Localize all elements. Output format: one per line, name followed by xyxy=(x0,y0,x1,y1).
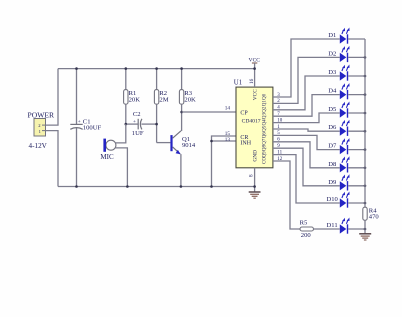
wire pin8 to ground xyxy=(254,168,256,192)
junction C2 left (R1/mic) xyxy=(125,123,128,126)
junction bus D6 xyxy=(364,130,367,133)
junction C1 bottom xyxy=(75,185,78,188)
transistor Q1 9014 xyxy=(170,131,181,154)
LED D6 xyxy=(340,120,350,136)
wire top rail xyxy=(58,68,255,70)
capacitor C1 xyxy=(70,69,82,187)
wire Q6 pin5 to D7 xyxy=(273,135,340,149)
wire LED bus vertical xyxy=(364,39,366,207)
svg-text:U1: U1 xyxy=(234,80,242,87)
junction VCC rail xyxy=(253,67,256,70)
junction R1 top xyxy=(125,67,128,70)
junction INH rail xyxy=(210,185,213,188)
junction bus D7 xyxy=(364,148,367,151)
svg-text:14: 14 xyxy=(225,106,231,112)
wire CP pin14 xyxy=(182,111,236,113)
svg-text:Q0: Q0 xyxy=(262,93,267,100)
resistor R1 xyxy=(124,69,128,124)
junction bus D4 xyxy=(364,93,367,96)
wire INH pin13 xyxy=(212,140,237,142)
svg-text:Q4: Q4 xyxy=(262,119,267,126)
wire Q1 collector up to CP node xyxy=(181,112,183,131)
wire D6 cathode to bus xyxy=(348,130,365,132)
junction bus D11 xyxy=(364,228,367,231)
svg-text:D8: D8 xyxy=(328,161,337,168)
svg-text:D10: D10 xyxy=(327,196,339,203)
junction mic bottom rail xyxy=(126,185,129,188)
wire Q5 pin1 to D6 xyxy=(273,129,340,131)
wire D8 cathode to bus xyxy=(348,167,365,169)
svg-text:CD4017: CD4017 xyxy=(242,119,261,125)
wire D5 cathode to bus xyxy=(348,112,365,114)
LED D7 xyxy=(340,138,350,154)
junction C2 right (R2/base) xyxy=(155,123,158,126)
connector J1 POWER xyxy=(34,119,46,137)
svg-text:MIC: MIC xyxy=(100,153,114,161)
LED D8 xyxy=(340,156,350,172)
svg-text:2M: 2M xyxy=(159,97,168,104)
svg-text:D4: D4 xyxy=(328,88,337,95)
wire CO pin12 to R5 xyxy=(273,161,300,229)
LED D2 xyxy=(340,46,350,62)
wire Q8 pin9 to D9 xyxy=(273,148,340,186)
op IC U1 CD4017 body xyxy=(236,87,273,168)
junction C1 top xyxy=(75,67,78,70)
svg-text:Q5: Q5 xyxy=(262,125,267,132)
LED D10 xyxy=(340,192,350,208)
resistor R2 xyxy=(154,69,158,143)
LED D4 xyxy=(340,83,350,99)
wire D9 cathode to bus xyxy=(348,185,365,187)
wire Q1 emitter to bottom rail xyxy=(180,154,182,186)
wire power pin1 to bottom rail xyxy=(46,131,59,187)
svg-text:+: + xyxy=(78,119,81,125)
svg-text:GND: GND xyxy=(252,150,258,162)
svg-text:CO: CO xyxy=(262,157,267,164)
svg-text:INH: INH xyxy=(240,140,251,146)
wire Q7 pin6 to D8 xyxy=(273,142,340,168)
wire Q0 pin3 to D1 xyxy=(273,39,340,97)
junction CR/INH tie xyxy=(210,140,213,143)
svg-text:100UF: 100UF xyxy=(83,124,102,131)
junction bus D9 xyxy=(364,185,367,188)
wire Q1 pin2 to D2 xyxy=(273,57,340,103)
wire R5 to D11 xyxy=(314,228,340,230)
svg-text:9014: 9014 xyxy=(182,142,196,149)
resistor R5 xyxy=(300,227,314,231)
svg-text:Q9: Q9 xyxy=(262,151,267,158)
svg-text:Q2: Q2 xyxy=(262,106,267,113)
svg-text:13: 13 xyxy=(225,137,231,143)
svg-text:D6: D6 xyxy=(328,124,337,131)
power symbol VCC xyxy=(249,57,261,87)
wire CR pin15 xyxy=(212,136,237,187)
junction R3 top xyxy=(180,67,183,70)
svg-text:Q8: Q8 xyxy=(262,144,267,151)
svg-text:D1: D1 xyxy=(328,32,336,39)
svg-text:16: 16 xyxy=(249,78,255,84)
svg-text:Q6: Q6 xyxy=(262,132,267,139)
svg-text:D3: D3 xyxy=(328,69,337,76)
wire R4 to ground xyxy=(364,220,366,233)
junction bus D2 xyxy=(364,56,367,59)
resistor R3 xyxy=(179,69,183,112)
wire Q4 pin10 to D5 xyxy=(273,113,340,123)
svg-text:4-12V: 4-12V xyxy=(29,142,48,150)
wire D10 cathode to bus xyxy=(348,202,365,204)
junction bus D3 xyxy=(364,75,367,78)
wire D7 cathode to bus xyxy=(348,149,365,151)
ground GND at IC xyxy=(249,192,261,198)
wire D2 cathode to bus xyxy=(348,56,365,58)
LED D9 xyxy=(340,174,350,190)
svg-text:Q3: Q3 xyxy=(262,112,267,119)
wire bottom rail xyxy=(58,186,255,188)
wire mic bottom to ground rail xyxy=(116,148,128,187)
resistor R4 xyxy=(363,207,367,220)
svg-text:Q1: Q1 xyxy=(262,100,267,107)
svg-text:D11: D11 xyxy=(327,222,338,229)
svg-text:D5: D5 xyxy=(328,106,337,113)
svg-text:1UF: 1UF xyxy=(132,130,144,137)
ground GND at R4 xyxy=(359,234,371,240)
svg-text:VCC: VCC xyxy=(252,89,258,100)
wire D11 cathode to bus xyxy=(348,228,365,230)
junction bus D10 xyxy=(364,202,367,205)
wire Q9 pin11 to D10 xyxy=(273,155,340,203)
LED D1 xyxy=(340,28,350,44)
wire D1 cathode to bus xyxy=(348,38,365,40)
svg-text:8: 8 xyxy=(248,174,254,177)
LED D11 xyxy=(340,218,350,234)
junction emitter rail xyxy=(180,185,183,188)
svg-text:C2: C2 xyxy=(133,111,141,118)
junction R3/collector/CP xyxy=(180,111,183,114)
wire power pin2 to top rail xyxy=(46,69,59,126)
svg-text:20K: 20K xyxy=(129,97,141,104)
svg-text:POWER: POWER xyxy=(28,111,56,120)
svg-text:20K: 20K xyxy=(184,97,196,104)
wire mic top to C2 junction xyxy=(116,124,126,143)
LED D3 xyxy=(340,65,350,81)
svg-text:Q7: Q7 xyxy=(262,138,267,145)
LED D5 xyxy=(340,102,350,118)
microphone MIC xyxy=(103,139,116,152)
svg-text:D7: D7 xyxy=(328,143,337,150)
capacitor C2 xyxy=(126,119,157,130)
wire D3 cathode to bus xyxy=(348,75,365,77)
wire Q3 pin7 to D4 xyxy=(273,95,340,117)
junction bus D8 xyxy=(364,167,367,170)
wire D4 cathode to bus xyxy=(348,94,365,96)
svg-text:D9: D9 xyxy=(328,179,337,186)
svg-text:200: 200 xyxy=(301,232,312,239)
svg-text:D2: D2 xyxy=(328,50,336,57)
svg-text:+: + xyxy=(133,119,136,125)
wire Q2 pin4 to D3 xyxy=(273,76,340,110)
svg-text:R5: R5 xyxy=(300,220,308,227)
junction R2 top xyxy=(155,67,158,70)
junction pin8 rail xyxy=(253,185,256,188)
svg-text:CP: CP xyxy=(240,111,248,117)
wire R2 to Q1 base xyxy=(157,142,171,144)
svg-text:470: 470 xyxy=(369,213,380,220)
junction bus D5 xyxy=(364,112,367,115)
